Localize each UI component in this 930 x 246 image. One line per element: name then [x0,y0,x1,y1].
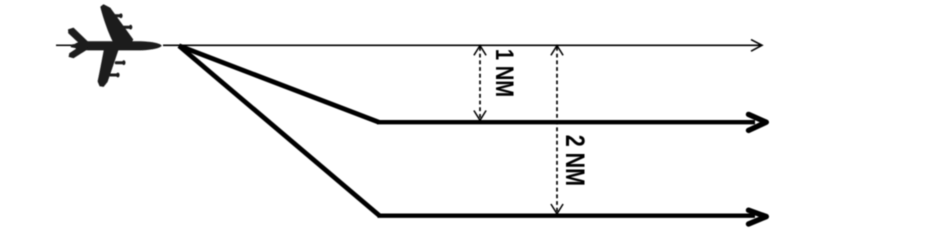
airplane lower engine 2 [109,74,117,77]
offset path 2 horizontal segment [378,213,756,217]
offset path 1 diagonal segment [179,46,379,122]
airplane lower wing [98,49,119,87]
offset path 2 diagonal segment [179,46,380,216]
offset path 2 thick arrowhead [749,210,767,224]
airplane tail cone [71,43,84,50]
airplane upper wing [100,4,133,43]
svg-text:1 NM: 1 NM [491,49,518,97]
svg-text:2 NM: 2 NM [559,135,589,186]
dashed measure 1 bottom arrowhead [474,111,486,121]
airplane fuselage [74,41,162,50]
centerline thin arrowhead [751,40,762,52]
airplane lower engine 1 [115,61,123,64]
dashed measure 1 top arrowhead [474,46,486,56]
airplane (top-view jet silhouette, nose right) [68,4,162,87]
offset path 1 horizontal segment [377,120,755,124]
airplane tail bottom fin [69,45,89,59]
airplane tail top fin [68,28,90,47]
dashed measure line 2 NM (vertical double arrow) [556,47,558,214]
dashed measure line 1 NM (vertical double arrow) [479,47,481,120]
airplane upper engine 2 [121,26,130,29]
offset path 1 thick arrowhead [749,114,767,130]
centerline stub left of airplane [56,44,72,46]
dashed measure 2 top arrowhead [551,46,563,56]
dashed measure 2 bottom arrowhead [551,204,563,214]
centerline thin horizontal arrow line [163,44,761,46]
airplane upper engine 1 [113,14,122,17]
